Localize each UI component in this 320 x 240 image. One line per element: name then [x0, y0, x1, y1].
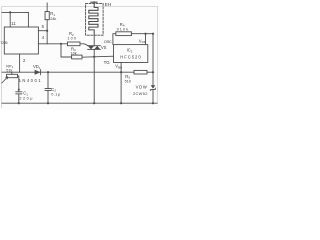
svg-text:7205: 7205 [0, 41, 7, 45]
svg-text:VDW: VDW [136, 85, 147, 90]
wire top-left rail [2, 11, 28, 13]
svg-text:VBB: VBB [115, 64, 122, 70]
node bottom rail zener [152, 102, 154, 104]
svg-text:VDD: VDD [139, 38, 147, 44]
node C1 top [18, 89, 20, 91]
svg-text:910k: 910k [117, 27, 128, 31]
svg-text:EH: EH [105, 2, 111, 7]
wire drop to IC1 pin 11 [27, 12, 29, 27]
wire heater to triac [93, 33, 95, 46]
wire right rail lower [152, 89, 154, 103]
svg-text:220μ: 220μ [19, 97, 32, 101]
wire triac cathode down [93, 49, 95, 103]
node right rail top junction [152, 33, 154, 35]
node gate junction [93, 56, 95, 58]
wire pin 2 drop [19, 54, 21, 72]
node C2 wire junction [47, 71, 49, 73]
wire R1 branch top [46, 3, 48, 12]
resistor R3 10k [72, 55, 82, 59]
wire R5 to rail [147, 71, 153, 73]
heater EH coil [89, 2, 98, 33]
op-amp U2 IC2 box HFC520 [114, 45, 148, 63]
svg-text:OSC: OSC [104, 39, 112, 44]
wire long horizontal common [2, 71, 134, 73]
diode VD1 1N4001 [35, 70, 41, 75]
node bottom rail triac [93, 102, 95, 104]
wire VBB pin drop [120, 63, 122, 104]
pin 5 wire [38, 30, 47, 32]
svg-text:1N4001: 1N4001 [19, 78, 42, 83]
pin 4 wire [38, 43, 67, 45]
resistor R2 100 [68, 42, 81, 46]
dashed enclosure EH [86, 3, 104, 35]
node VBB wire junction [120, 71, 122, 73]
wire heater top tick [91, 1, 97, 3]
svg-text:100: 100 [67, 36, 76, 40]
node bottom rail C1 [18, 102, 20, 104]
svg-text:10k: 10k [71, 51, 77, 55]
resistor R1 24k [45, 12, 49, 20]
node VDD pin junction [144, 33, 146, 35]
node R5 rail junction [152, 71, 154, 73]
node bottom rail C2 [47, 102, 49, 104]
resistor R5 510 [134, 70, 147, 74]
capacitor C2 0.1u [47, 72, 49, 88]
potentiometer RP1 51k [7, 74, 18, 77]
resistor R4 910k [116, 32, 132, 36]
svg-text:IC2: IC2 [127, 48, 133, 54]
svg-text:51k: 51k [6, 68, 12, 72]
wire R1 bottom to pin5 node [46, 20, 48, 31]
svg-text:VD1: VD1 [33, 64, 41, 70]
wire drop to IC1 top pin [9, 12, 11, 27]
capacitor C1 220u [16, 91, 22, 93]
svg-text:VS: VS [101, 45, 107, 50]
svg-text:TG: TG [104, 60, 111, 65]
wire drop to R3 row [61, 44, 72, 57]
op-amp U1 IC1 box 7205 [4, 27, 38, 54]
wire right rail upper [152, 34, 154, 85]
svg-text:HFC520: HFC520 [120, 55, 141, 60]
svg-text:2CW52: 2CW52 [133, 91, 147, 96]
diode VDW zener 2CW52 [151, 85, 156, 88]
wire R3 to IC2 TG pin [82, 56, 114, 57]
svg-text:11: 11 [11, 21, 16, 26]
wire R4 to VDD rail [131, 33, 153, 35]
wire VDD pin drop [145, 34, 147, 45]
wire down to pin4 row [46, 31, 48, 44]
node pin5/R1 junction [46, 30, 48, 32]
wire bottom rail [2, 102, 157, 104]
wire R2 to triac [80, 44, 88, 46]
node junction top-left [9, 11, 11, 13]
svg-text:0.1μ: 0.1μ [51, 93, 60, 97]
node R2 row junction [60, 43, 62, 45]
transistor VS triac symbol [88, 46, 101, 50]
svg-text:510: 510 [125, 80, 131, 84]
svg-text:24k: 24k [50, 17, 56, 21]
node bottom rail VBB [120, 102, 122, 104]
wire OSC branch [113, 34, 116, 45]
